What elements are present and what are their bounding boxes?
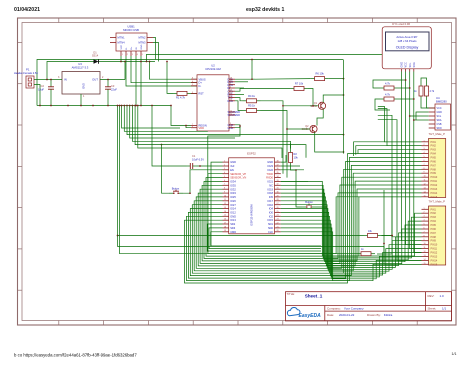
wire xyxy=(378,120,422,261)
svg-text:1: 1 xyxy=(122,54,123,56)
svg-text:14: 14 xyxy=(224,211,226,213)
resistor R6 xyxy=(311,77,329,81)
pins U1 stubs xyxy=(223,162,281,232)
svg-text:3v3: 3v3 xyxy=(230,164,235,168)
svg-text:7: 7 xyxy=(224,184,225,186)
junction xyxy=(170,105,172,107)
svg-text:IO22: IO22 xyxy=(267,168,273,172)
wire xyxy=(281,180,308,182)
junction xyxy=(239,125,241,127)
svg-text:Button: Button xyxy=(172,187,180,191)
svg-text:10: 10 xyxy=(224,195,226,197)
wire xyxy=(209,228,321,249)
svg-text:MTN2: MTN2 xyxy=(138,36,146,40)
svg-text:PIN11: PIN11 xyxy=(431,248,438,251)
svg-text:THT_Male_P: THT_Male_P xyxy=(429,132,446,136)
wire xyxy=(281,169,304,171)
svg-text:PIN9: PIN9 xyxy=(431,172,437,175)
svg-text:PIN4: PIN4 xyxy=(431,220,437,223)
svg-text:6: 6 xyxy=(224,180,225,182)
svg-text:IO16: IO16 xyxy=(267,203,273,207)
svg-text:PIN2: PIN2 xyxy=(431,212,437,215)
resistor R9 xyxy=(380,97,398,101)
sheet border inner xyxy=(22,23,452,321)
resistor R5 xyxy=(243,109,261,113)
svg-text:27: 27 xyxy=(277,203,279,205)
wire bundle xyxy=(281,193,422,262)
wire xyxy=(421,78,427,82)
wire xyxy=(358,150,422,154)
wire bundle xyxy=(187,158,422,281)
svg-text:4: 4 xyxy=(137,54,138,56)
svg-text:IO27: IO27 xyxy=(230,203,236,207)
svg-text:esp32 devkits 1: esp32 devkits 1 xyxy=(246,7,284,13)
svg-text:IO32: IO32 xyxy=(230,187,236,191)
svg-text:9: 9 xyxy=(424,239,425,241)
wire xyxy=(235,101,243,111)
pin numbers U1 xyxy=(224,161,279,233)
svg-text:REV:: REV: xyxy=(428,294,435,298)
junction xyxy=(126,105,128,107)
wire xyxy=(235,94,244,96)
junction xyxy=(117,235,119,237)
wire xyxy=(296,170,302,207)
junction xyxy=(391,235,393,237)
junction xyxy=(117,105,119,107)
svg-text:8: 8 xyxy=(224,188,225,190)
svg-text:30: 30 xyxy=(277,192,279,194)
svg-text:S8050: S8050 xyxy=(310,105,318,108)
wire xyxy=(378,109,422,146)
svg-text:TITLE:: TITLE: xyxy=(287,292,296,296)
svg-text:TXD0: TXD0 xyxy=(266,172,273,176)
junction xyxy=(409,87,411,89)
svg-text:19: 19 xyxy=(224,230,226,232)
svg-text:11: 11 xyxy=(424,247,426,249)
junction xyxy=(67,105,69,107)
svg-text:24: 24 xyxy=(277,215,279,217)
junction xyxy=(46,79,48,81)
wire row xyxy=(138,106,282,159)
junction xyxy=(50,79,52,81)
wire xyxy=(107,80,109,84)
wire xyxy=(191,92,197,94)
svg-text:12: 12 xyxy=(424,184,426,186)
svg-text:1: 1 xyxy=(424,140,425,142)
svg-text:2: 2 xyxy=(424,212,425,214)
svg-text:OUT: OUT xyxy=(92,78,98,82)
svg-text:3: 3 xyxy=(224,168,225,170)
svg-text:4: 4 xyxy=(424,152,425,154)
junction xyxy=(405,79,407,81)
svg-text:b co https;//easyeda.com/f2e44: b co https;//easyeda.com/f2e44a61-87fb-4… xyxy=(14,353,137,358)
wire bundle xyxy=(281,205,422,268)
svg-text:BME280: BME280 xyxy=(436,100,447,104)
wire bundle xyxy=(281,228,422,279)
svg-text:IO18: IO18 xyxy=(267,191,273,195)
wire xyxy=(235,60,252,80)
svg-text:VCC: VCC xyxy=(405,62,408,67)
junction xyxy=(123,105,125,107)
wire xyxy=(252,78,311,81)
svg-text:8: 8 xyxy=(424,235,425,237)
junction xyxy=(140,105,142,107)
svg-text:12: 12 xyxy=(224,203,226,205)
button SW1 xyxy=(169,190,183,194)
sheet border ticks xyxy=(18,18,457,325)
svg-text:23: 23 xyxy=(277,219,279,221)
svg-text:Sheet_1: Sheet_1 xyxy=(305,294,323,299)
junction xyxy=(50,105,52,107)
wire bundle xyxy=(281,216,422,273)
svg-text:16: 16 xyxy=(224,219,226,221)
junction xyxy=(312,105,314,107)
wire xyxy=(398,98,414,100)
svg-text:Your Company: Your Company xyxy=(344,307,364,311)
resistor R7 xyxy=(290,87,308,91)
junction xyxy=(120,61,122,63)
wire xyxy=(100,79,125,81)
wire xyxy=(207,224,321,251)
wire xyxy=(118,106,364,236)
wire xyxy=(150,62,198,80)
svg-text:PIN3: PIN3 xyxy=(431,149,437,152)
svg-text:RST: RST xyxy=(199,92,205,96)
wire xyxy=(152,106,187,167)
junction xyxy=(251,78,253,80)
junction xyxy=(343,94,345,96)
wire xyxy=(153,38,156,60)
junction xyxy=(146,61,148,63)
svg-text:MTN4: MTN4 xyxy=(118,41,126,45)
svg-text:SS14: SS14 xyxy=(92,54,99,58)
svg-text:D-: D- xyxy=(199,84,202,88)
svg-text:36: 36 xyxy=(277,168,279,170)
svg-text:PIN13: PIN13 xyxy=(431,188,438,191)
svg-text:IO5: IO5 xyxy=(269,195,274,199)
resistor R1 xyxy=(173,91,191,95)
svg-text:SDO: SDO xyxy=(437,127,442,130)
svg-text:2: 2 xyxy=(127,54,128,56)
svg-text:1.0: 1.0 xyxy=(440,294,445,298)
svg-text:8: 8 xyxy=(192,78,193,80)
wire xyxy=(356,146,422,155)
svg-text:15: 15 xyxy=(224,215,226,217)
wire row xyxy=(124,106,208,132)
wire xyxy=(135,56,137,106)
wire xyxy=(281,165,300,167)
svg-text:GND: GND xyxy=(230,214,236,218)
svg-text:PIN7: PIN7 xyxy=(431,164,437,167)
wire xyxy=(131,56,198,83)
svg-text:2: 2 xyxy=(224,164,225,166)
svg-text:34: 34 xyxy=(277,176,279,178)
resistor R10 xyxy=(419,82,423,100)
svg-text:S8050: S8050 xyxy=(302,128,310,131)
wire xyxy=(343,60,345,154)
svg-text:Kittitra: Kittitra xyxy=(384,313,393,317)
resistor R8 xyxy=(380,86,398,90)
wire xyxy=(107,93,109,106)
wire xyxy=(50,80,52,84)
svg-text:RXD0: RXD0 xyxy=(266,176,273,180)
EasyEDA logo xyxy=(287,308,321,320)
svg-text:3: 3 xyxy=(132,54,133,56)
svg-text:C3: C3 xyxy=(111,84,115,88)
svg-text:R4 1k: R4 1k xyxy=(248,94,255,98)
wire xyxy=(162,145,170,194)
svg-text:NC: NC xyxy=(269,183,273,187)
svg-text:IN: IN xyxy=(64,78,67,82)
svg-text:IO17: IO17 xyxy=(267,199,273,203)
svg-text:IO0: IO0 xyxy=(269,211,274,215)
svg-text:CLK: CLK xyxy=(268,230,273,234)
wire xyxy=(147,54,383,61)
svg-text:IO12: IO12 xyxy=(230,211,236,215)
junction xyxy=(325,206,327,208)
junction xyxy=(251,59,253,61)
svg-text:CMD: CMD xyxy=(230,230,236,234)
svg-text:1: 1 xyxy=(230,83,231,85)
svg-text:PIN2: PIN2 xyxy=(431,145,437,148)
capacitor C1 xyxy=(187,163,197,169)
svg-text:27: 27 xyxy=(230,80,232,82)
wire xyxy=(261,101,284,174)
pins USB1 stubs xyxy=(110,38,153,57)
wire xyxy=(120,56,122,62)
svg-text:Company:: Company: xyxy=(327,307,341,311)
svg-text:SENSOR_VP: SENSOR_VP xyxy=(230,172,246,176)
svg-text:IO23: IO23 xyxy=(267,164,273,168)
svg-text:3: 3 xyxy=(424,148,425,150)
junction xyxy=(135,105,137,107)
svg-text:PIN12: PIN12 xyxy=(431,252,438,255)
svg-text:IO19: IO19 xyxy=(267,187,273,191)
wire xyxy=(235,81,248,83)
wire xyxy=(186,126,191,128)
wire xyxy=(414,119,429,121)
svg-text:15: 15 xyxy=(424,263,426,265)
svg-text:PIN1: PIN1 xyxy=(431,141,437,144)
svg-text:33: 33 xyxy=(277,180,279,182)
capacitor C3 xyxy=(105,83,111,93)
svg-text:PIN8: PIN8 xyxy=(431,168,437,171)
capacitor C2 xyxy=(48,83,54,93)
svg-text:25: 25 xyxy=(230,99,232,101)
svg-text:13: 13 xyxy=(424,188,426,190)
svg-text:SD2: SD2 xyxy=(230,222,236,226)
wire xyxy=(34,85,40,106)
wire xyxy=(126,56,198,86)
resistor R12 xyxy=(364,234,382,238)
svg-text:37: 37 xyxy=(277,164,279,166)
svg-text:PIN5: PIN5 xyxy=(431,224,437,227)
svg-text:EN: EN xyxy=(230,168,234,172)
junction xyxy=(92,105,94,107)
svg-text:VCC: VCC xyxy=(121,44,123,49)
svg-text:28: 28 xyxy=(277,199,279,201)
wire row xyxy=(130,106,235,139)
junction xyxy=(207,250,209,252)
wire bundle xyxy=(281,224,422,277)
wire bundle xyxy=(281,201,422,266)
svg-text:01/04/2021: 01/04/2021 xyxy=(14,7,40,13)
junction xyxy=(391,235,393,237)
wire bundle xyxy=(194,173,421,271)
svg-text:4.7k: 4.7k xyxy=(385,92,391,96)
junction xyxy=(151,105,153,107)
svg-text:IO25: IO25 xyxy=(230,195,236,199)
junction xyxy=(124,61,126,63)
svg-text:SD1: SD1 xyxy=(268,222,274,226)
svg-text:IO2: IO2 xyxy=(269,214,274,218)
svg-text:GND: GND xyxy=(437,111,443,114)
wire row xyxy=(122,106,180,129)
svg-text:17: 17 xyxy=(224,222,226,224)
svg-text:23: 23 xyxy=(230,90,232,92)
wire bundle xyxy=(281,212,422,271)
svg-text:128 x 64 Pixels: 128 x 64 Pixels xyxy=(398,39,418,43)
svg-text:GND: GND xyxy=(141,44,143,49)
svg-text:SD0: SD0 xyxy=(268,226,274,230)
junction xyxy=(129,105,131,107)
svg-text:7: 7 xyxy=(424,231,425,233)
wire xyxy=(34,79,47,81)
svg-text:12: 12 xyxy=(424,251,426,253)
svg-text:4.7k: 4.7k xyxy=(385,81,391,85)
resistor R11 xyxy=(425,82,429,100)
svg-text:8: 8 xyxy=(424,168,425,170)
svg-text:GND: GND xyxy=(230,160,236,164)
svg-text:SCL: SCL xyxy=(437,115,442,118)
wire xyxy=(47,62,94,80)
wire xyxy=(416,112,429,120)
wire xyxy=(421,104,429,108)
svg-text:EasyEDA: EasyEDA xyxy=(299,313,322,319)
wire xyxy=(235,125,240,128)
svg-text:4: 4 xyxy=(192,81,193,83)
junction xyxy=(134,105,136,107)
wire bundle xyxy=(200,185,421,263)
svg-text:MTN1: MTN1 xyxy=(118,36,126,40)
wire xyxy=(118,236,422,265)
svg-text:CP2102-GM: CP2102-GM xyxy=(205,67,221,71)
svg-text:IO4: IO4 xyxy=(269,207,274,211)
wire xyxy=(235,98,243,101)
svg-text:AMS1117-3.3: AMS1117-3.3 xyxy=(72,66,89,70)
svg-text:IO15: IO15 xyxy=(267,218,273,222)
wire xyxy=(50,93,52,106)
junction xyxy=(343,78,345,80)
junction xyxy=(185,125,187,127)
resistor R13 xyxy=(357,252,375,256)
svg-text:R1 4.7k: R1 4.7k xyxy=(176,96,186,100)
wire bundle xyxy=(206,178,422,257)
svg-text:PIN10: PIN10 xyxy=(431,176,438,179)
button SW2 xyxy=(302,204,316,208)
svg-text:VCC: VCC xyxy=(437,107,442,110)
junction xyxy=(413,119,415,121)
svg-text:Sheet:: Sheet: xyxy=(428,307,437,311)
junction xyxy=(343,151,345,153)
junction xyxy=(140,61,142,63)
svg-text:24: 24 xyxy=(230,93,232,95)
transistor Q2 xyxy=(310,125,317,132)
svg-text:7: 7 xyxy=(424,164,425,166)
wire xyxy=(124,62,126,80)
svg-text:PIN14: PIN14 xyxy=(431,259,438,262)
wire bundle xyxy=(281,220,422,275)
svg-text:PIN6: PIN6 xyxy=(431,161,437,164)
svg-text:C2: C2 xyxy=(41,84,45,88)
wire xyxy=(308,89,313,106)
svg-text:1/1: 1/1 xyxy=(452,352,457,356)
svg-text:Header-Female 2.54: Header-Female 2.54 xyxy=(14,71,38,75)
junction xyxy=(161,144,163,146)
wire xyxy=(261,111,288,178)
svg-text:4: 4 xyxy=(224,172,225,174)
svg-text:10: 10 xyxy=(230,126,232,128)
svg-text:SDA: SDA xyxy=(413,62,416,67)
diode D1 SS14 xyxy=(94,59,99,64)
wire xyxy=(382,235,393,237)
svg-text:5: 5 xyxy=(224,176,225,178)
svg-text:VDD: VDD xyxy=(199,126,205,130)
svg-text:9: 9 xyxy=(224,192,225,194)
wire xyxy=(120,106,357,254)
svg-text:SCL: SCL xyxy=(409,62,412,67)
wire xyxy=(427,100,436,108)
svg-text:PIN1: PIN1 xyxy=(431,208,437,211)
wire xyxy=(140,56,142,106)
svg-text:PIN4: PIN4 xyxy=(431,153,437,156)
title block xyxy=(286,292,452,321)
svg-text:PIN13: PIN13 xyxy=(431,256,438,259)
svg-text:6: 6 xyxy=(424,228,425,230)
svg-text:10k: 10k xyxy=(294,155,299,159)
svg-text:PIN5: PIN5 xyxy=(431,157,437,160)
svg-text:ESP32: ESP32 xyxy=(247,152,256,156)
wire xyxy=(391,196,393,254)
wire bundle xyxy=(196,177,421,268)
svg-text:26: 26 xyxy=(277,207,279,209)
svg-text:20: 20 xyxy=(277,230,279,232)
svg-text:SDA: SDA xyxy=(437,119,442,122)
svg-text:38: 38 xyxy=(277,161,279,163)
wire xyxy=(377,253,392,255)
svg-text:11: 11 xyxy=(224,199,226,201)
wire xyxy=(329,78,344,80)
pins U4 stubs xyxy=(429,108,435,128)
svg-text:PIN10: PIN10 xyxy=(431,244,438,247)
svg-text:DY1 oled 0.96: DY1 oled 0.96 xyxy=(392,22,410,26)
svg-text:ESP32-WROOM: ESP32-WROOM xyxy=(250,204,254,226)
wire xyxy=(382,235,393,237)
svg-text:IO35: IO35 xyxy=(230,183,236,187)
wire bundle xyxy=(281,209,422,270)
svg-text:12: 12 xyxy=(230,110,232,112)
transistor Q1 xyxy=(318,102,325,109)
wire xyxy=(414,72,422,253)
svg-text:31: 31 xyxy=(277,188,279,190)
svg-text:IO34: IO34 xyxy=(230,180,236,184)
wire xyxy=(208,126,240,251)
wire xyxy=(37,105,171,107)
wire xyxy=(99,61,156,63)
svg-text:Drawn By:: Drawn By: xyxy=(367,313,381,317)
wire xyxy=(378,106,422,141)
svg-text:18: 18 xyxy=(224,226,226,228)
